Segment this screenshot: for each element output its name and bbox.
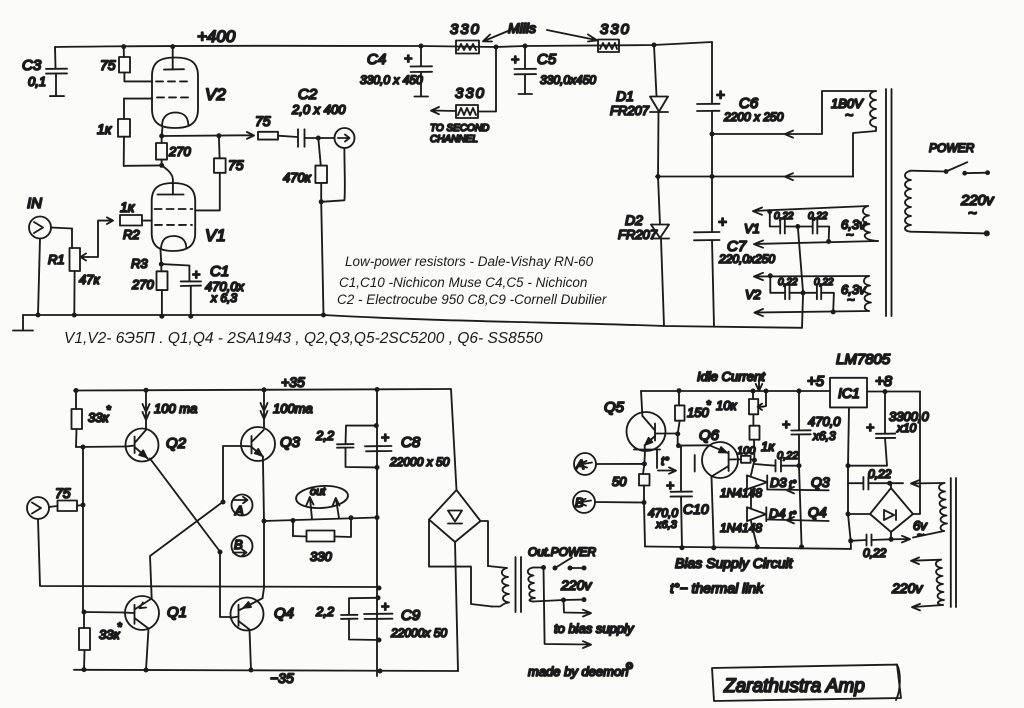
capacitor 0,22 heater V2 b — [803, 285, 834, 312]
svg-text:330,0 х 450: 330,0 х 450 — [360, 73, 423, 87]
tube V1 — [152, 183, 196, 264]
node C10 gnd — [680, 545, 685, 550]
svg-text:+: + — [716, 87, 725, 104]
winding 6,3v (V2) — [864, 276, 871, 311]
svg-text:0,22: 0,22 — [814, 277, 834, 288]
svg-text:FR207: FR207 — [610, 103, 650, 118]
svg-text:75: 75 — [100, 57, 116, 73]
resistor R3 270 — [157, 264, 168, 316]
potentiometer 10k — [749, 391, 766, 414]
svg-text:CHANNEL: CHANNEL — [430, 134, 478, 145]
svg-text:47к: 47к — [79, 272, 100, 287]
node rail-D1 — [652, 43, 657, 48]
wire to bias supply (upper arrow) — [564, 600, 592, 617]
node Q1 -35 — [144, 668, 149, 673]
diode D1 FR207 — [650, 45, 668, 177]
svg-text:C9: C9 — [401, 607, 421, 624]
wire to 6v winding bottom — [891, 536, 910, 543]
svg-text:0,1: 0,1 — [28, 74, 46, 89]
svg-text:C4: C4 — [367, 51, 386, 68]
node C1-gnd — [188, 314, 193, 319]
svg-text:~: ~ — [845, 107, 853, 123]
wire out bus — [264, 518, 377, 522]
wire B to bias gnd — [644, 503, 645, 547]
resistor 150 — [675, 391, 685, 434]
wire bridge+ to +8 — [913, 392, 920, 515]
wire Q2 emitter diagonal to B — [150, 459, 220, 552]
node 3300 — [883, 389, 888, 394]
node 470k-gnd — [321, 313, 326, 318]
svg-text:50: 50 — [612, 474, 627, 489]
wire V2 cathode to coupling — [162, 134, 244, 137]
transformer core (output) — [516, 557, 522, 612]
node V2 cathode — [159, 134, 164, 139]
wire Q1 base — [83, 611, 123, 614]
svg-text:TO SECOND: TO SECOND — [430, 123, 489, 134]
resistor 75 (V2 screen) — [119, 47, 152, 82]
resistor 470k — [315, 138, 327, 202]
switch POWER — [911, 162, 990, 175]
svg-text:D2: D2 — [625, 212, 643, 228]
svg-text:2,2: 2,2 — [315, 604, 335, 619]
node 470 cap — [797, 389, 802, 394]
wire Q1 collector diagonal to A — [150, 503, 222, 599]
svg-text:+400: +400 — [197, 27, 236, 46]
svg-text:Q2: Q2 — [166, 435, 187, 452]
svg-text:330: 330 — [455, 85, 486, 102]
wire Q2 base — [76, 446, 126, 449]
wire main PSU vertical — [376, 390, 378, 677]
wire Q3 base to A — [223, 446, 241, 502]
capacitor 0,22 (bias a) — [754, 460, 799, 472]
svg-text:220v: 220v — [960, 192, 995, 209]
node row2 — [848, 538, 853, 543]
svg-text:~: ~ — [917, 528, 924, 542]
output transformer secondary — [488, 566, 509, 607]
svg-text:+: + — [404, 50, 412, 66]
svg-text:to bias supply: to bias supply — [554, 621, 635, 636]
capacitor C5 — [515, 46, 537, 94]
capacitor C3 — [46, 47, 67, 96]
input terminal IN — [29, 217, 72, 239]
node B — [218, 550, 223, 555]
svg-text:−35: −35 — [270, 670, 294, 686]
svg-text:A: A — [234, 503, 244, 518]
svg-text:+8: +8 — [875, 373, 893, 390]
svg-text:1к: 1к — [120, 199, 136, 215]
svg-text:out: out — [310, 486, 326, 498]
transistor Q3 — [241, 427, 275, 461]
node C8 top — [374, 423, 379, 428]
transistor Q1 — [123, 596, 159, 630]
node heater1 bottom — [826, 239, 831, 244]
svg-text:0,22: 0,22 — [808, 211, 828, 222]
arrow idle current — [756, 381, 762, 391]
capacitor 0,22 heater V1 b — [798, 220, 829, 242]
svg-text:220v: 220v — [560, 577, 592, 593]
svg-text:C1,C10 -Nichicon Muse C4,C5: C1,C10 -Nichicon Muse C4,C5 - Nichicon — [339, 275, 587, 290]
svg-text:Bias Supply Circuit: Bias Supply Circuit — [675, 555, 794, 571]
node A — [221, 500, 226, 505]
node rail-drop — [494, 45, 499, 50]
svg-text:+: + — [718, 214, 727, 231]
node heater2 bottom — [831, 309, 836, 314]
svg-text:*: * — [117, 620, 122, 634]
svg-text:1N4148: 1N4148 — [720, 486, 762, 500]
node C6 bottom — [710, 132, 715, 137]
winding 6,3v (V1) — [863, 206, 878, 241]
node base bus top — [81, 445, 86, 450]
svg-text:330,0х450: 330,0х450 — [540, 73, 596, 87]
svg-text:х 6,3: х 6,3 — [210, 291, 237, 305]
capacitor C1 — [161, 264, 201, 316]
resistor 75 (coupling series) — [258, 132, 298, 140]
node C2-470k — [316, 136, 321, 141]
svg-text:22000 х 50: 22000 х 50 — [389, 455, 450, 469]
node out-330L — [291, 518, 296, 523]
svg-text:22000х 50: 22000х 50 — [390, 626, 447, 640]
node Q3-rail — [262, 387, 267, 392]
tube V2 — [152, 47, 198, 136]
output terminal (top channel) — [335, 128, 355, 148]
bridge rectifier (bias) — [870, 483, 913, 539]
resistor 75 (V1 screen) — [195, 136, 225, 211]
node Q5 base — [675, 431, 680, 436]
node base bus bottom — [82, 610, 87, 615]
svg-text:R1: R1 — [48, 252, 65, 267]
heater V1 top row — [753, 206, 868, 227]
svg-text:+35: +35 — [281, 374, 305, 390]
svg-text:C8: C8 — [401, 434, 421, 451]
svg-text:©: © — [626, 661, 633, 671]
svg-text:75: 75 — [255, 113, 271, 129]
diode D3 1N4148 — [747, 460, 767, 507]
wire 6v winding top — [890, 480, 945, 487]
svg-text:+: + — [381, 429, 389, 445]
svg-text:0,22: 0,22 — [778, 277, 798, 288]
svg-text:Q1: Q1 — [167, 604, 187, 621]
capacitor 0,22 (bias c) — [851, 535, 891, 546]
svg-text:*: * — [106, 403, 111, 417]
node 10k — [751, 389, 756, 394]
node 220v return — [984, 230, 990, 236]
node 470k-return — [319, 199, 324, 204]
node 1k/270/V1-anode — [159, 163, 164, 168]
arrow mills-right — [547, 30, 597, 42]
svg-text:10к: 10к — [716, 398, 737, 413]
diode D2 FR207 — [651, 177, 669, 327]
capacitor 0,22 (bias b) — [848, 477, 890, 490]
transistor Q6 — [702, 442, 738, 548]
capacitor C2 — [298, 129, 334, 146]
svg-text:270: 270 — [168, 144, 191, 159]
node bridge bottom wire — [889, 537, 894, 542]
node 470cap gnd — [799, 544, 804, 549]
svg-text:C10: C10 — [683, 501, 709, 517]
transformer core (main) — [886, 89, 892, 316]
resistor 330 Mills #1 — [456, 41, 479, 54]
svg-text:D1: D1 — [616, 88, 634, 104]
transistor Q2 — [126, 429, 159, 462]
node Q2-rail — [144, 388, 149, 393]
node out-Q3 — [262, 519, 267, 524]
svg-text:75: 75 — [55, 485, 71, 501]
svg-text:t°− thermal link: t°− thermal link — [670, 580, 764, 596]
svg-text:100 ma: 100 ma — [154, 401, 197, 416]
svg-text:V1: V1 — [205, 226, 226, 245]
node A wire — [642, 461, 647, 466]
capacitor 2,2 (lower) — [341, 598, 379, 640]
node C6C7 row — [710, 174, 715, 179]
node C9 bottom — [377, 638, 382, 643]
svg-text:0,22: 0,22 — [777, 450, 798, 462]
resistor 33k* (upper) — [72, 391, 83, 448]
node rail-V2 anode — [170, 44, 175, 49]
node heater1 — [767, 209, 772, 214]
arrow 220v top — [911, 558, 941, 565]
svg-text:Q4: Q4 — [808, 504, 827, 520]
svg-text:х6,3: х6,3 — [812, 429, 836, 443]
capacitor 0,22 heater V1 a — [780, 220, 798, 234]
svg-text:220,0х250: 220,0х250 — [718, 252, 775, 266]
output transformer primary — [528, 568, 535, 602]
wire bridge- to gnd — [848, 513, 870, 515]
svg-text:C1: C1 — [210, 263, 229, 280]
wire +35 rail — [74, 389, 451, 391]
switch Out.POWER — [541, 558, 587, 571]
node bridge left — [846, 512, 851, 517]
svg-text:330: 330 — [600, 21, 631, 38]
svg-text:470к: 470к — [283, 170, 312, 185]
node out-330R — [349, 515, 354, 520]
svg-text:+: + — [866, 419, 874, 435]
arrow mills-left — [483, 31, 508, 42]
svg-text:1к: 1к — [761, 439, 775, 454]
svg-text:2,2: 2,2 — [315, 428, 335, 443]
svg-text:POWER: POWER — [929, 141, 975, 155]
svg-text:FR207: FR207 — [618, 227, 658, 242]
svg-text:B: B — [234, 537, 243, 552]
svg-text:Low-power resistors - Dale-Vi: Low-power resistors - Dale-Vishay RN-60 — [345, 254, 594, 269]
svg-text:2200 х 250: 2200 х 250 — [723, 110, 784, 124]
arrow on row — [785, 173, 793, 180]
transistor Q5 — [627, 391, 680, 451]
svg-text:D3: D3 — [770, 475, 787, 490]
svg-text:Q6: Q6 — [699, 427, 720, 444]
resistor 75 (input) — [58, 501, 84, 512]
svg-text:270: 270 — [131, 277, 154, 292]
svg-text:75: 75 — [228, 157, 244, 173]
node Q6 base-C10 — [676, 443, 681, 448]
wire Q2 collector 100ma — [143, 390, 150, 429]
svg-text:LM7805: LM7805 — [836, 351, 891, 368]
svg-text:0,22: 0,22 — [863, 546, 887, 560]
wire bias +5 rail — [641, 390, 830, 392]
capacitor C6 — [697, 42, 720, 232]
node heater2 — [768, 273, 773, 278]
wire IC1 ground — [645, 407, 851, 549]
svg-text:+: + — [666, 477, 674, 493]
wire Q5 emitter chain — [643, 451, 645, 475]
node B wire — [642, 500, 647, 505]
resistor 50 — [639, 474, 650, 503]
svg-text:V2: V2 — [205, 85, 226, 104]
wire D1D2 junction row — [656, 176, 853, 178]
svg-text:330: 330 — [310, 549, 332, 564]
node 33k-rail — [74, 388, 79, 393]
capacitor 0,22 heater V2 a — [785, 285, 803, 299]
node bridge top wire — [887, 481, 892, 486]
ground rail (top section) — [23, 315, 802, 328]
svg-text:Mills: Mills — [508, 20, 536, 36]
capacitor C4 — [411, 46, 433, 97]
capacitor 3300,0 — [848, 392, 895, 466]
wire 470k to ground — [321, 202, 323, 315]
svg-text:*: * — [706, 398, 711, 412]
heater V2 bottom row — [754, 309, 869, 316]
node C8 bottom — [375, 465, 380, 470]
node rail-C4 — [419, 44, 424, 49]
resistor R2 1k — [120, 215, 152, 226]
terminal B (bias) — [573, 491, 644, 513]
svg-text:Out.POWER: Out.POWER — [528, 545, 596, 559]
wire base bus vertical — [82, 447, 84, 612]
out ellipse — [295, 484, 348, 510]
svg-text:V2: V2 — [745, 287, 762, 302]
node V1 cathode — [159, 262, 164, 267]
svg-text:Zarathustra Amp: Zarathustra Amp — [723, 676, 865, 697]
heater V1 bottom row — [754, 241, 878, 248]
svg-text:~: ~ — [847, 292, 855, 307]
arrow 220v bottom — [912, 604, 943, 611]
wire D3 to Q3 link — [768, 487, 829, 493]
svg-text:1к: 1к — [97, 121, 113, 137]
transformer core (bias) — [951, 478, 956, 607]
resistor 1k (V2 grid) — [118, 99, 162, 166]
terminal A (bias) — [574, 453, 644, 475]
svg-text:+5: +5 — [807, 373, 825, 390]
node out-C8 — [375, 515, 380, 520]
svg-text:+: + — [381, 598, 389, 614]
potentiometer R1 47k — [70, 217, 114, 315]
node heater mid1 — [795, 224, 800, 229]
svg-text:Q3: Q3 — [811, 474, 830, 490]
capacitor C8 — [365, 446, 392, 451]
svg-text:Idle Current: Idle Current — [697, 369, 766, 384]
wire output circle return — [321, 148, 345, 202]
svg-text:t°: t° — [661, 454, 669, 468]
wire +400 top rail — [55, 42, 712, 47]
node V2out-75 — [216, 133, 221, 138]
resistor 330 (out) — [293, 518, 351, 542]
node 2,2 lower top — [376, 595, 381, 600]
wire bias +8 rail — [867, 391, 920, 393]
node 1k-100 — [752, 458, 757, 463]
node 10k wiper — [764, 389, 769, 394]
node R1-gnd — [72, 313, 77, 318]
svg-text:C3: C3 — [22, 57, 42, 74]
wire heater midpoints to ground — [798, 227, 803, 328]
svg-text:+: + — [192, 266, 200, 282]
svg-text:~: ~ — [846, 227, 854, 242]
svg-text:~: ~ — [968, 205, 977, 222]
svg-text:220v: 220v — [891, 580, 923, 596]
out arrows — [307, 497, 314, 519]
node 470cap mid — [797, 463, 802, 468]
node Q6 gnd — [711, 545, 716, 550]
svg-text:330: 330 — [450, 21, 481, 38]
wire IN to gnd — [38, 239, 40, 316]
svg-text:1N4148: 1N4148 — [720, 521, 762, 535]
svg-text:C5: C5 — [537, 51, 557, 68]
svg-text:IN: IN — [27, 195, 42, 212]
ground symbol — [13, 315, 33, 331]
capacitor 470,0 (bias) — [791, 391, 810, 547]
heater V2 top row — [754, 273, 869, 293]
svg-text:х10: х10 — [896, 421, 917, 435]
node +35 psu — [375, 387, 380, 392]
resistor 33k* (lower) — [79, 612, 90, 670]
wire primary top to switch — [533, 567, 544, 569]
bridge rectifier (main) — [429, 389, 481, 671]
svg-text:+: + — [511, 51, 519, 67]
wire to bias supply (lower arrow) — [544, 568, 592, 649]
node rail-C5 — [523, 44, 528, 49]
wire Q1 emitter to -35 — [146, 629, 149, 671]
node D4 gnd — [755, 544, 760, 549]
arrow on wire — [244, 132, 254, 139]
svg-text:0,22: 0,22 — [774, 211, 794, 222]
capacitor 2,2 (upper) — [337, 426, 377, 468]
winding 220v (bias) — [936, 560, 944, 605]
node IN-gnd — [36, 313, 41, 318]
wire Q6 base — [678, 434, 710, 446]
wire Q4 emitter to -35 — [250, 630, 252, 671]
terminal A — [232, 495, 253, 516]
resistor 330 Mills #2 — [598, 40, 619, 53]
svg-text:6,3v: 6,3v — [841, 217, 867, 232]
resistor 100 — [729, 456, 755, 463]
node Q4 -35 — [249, 668, 254, 673]
svg-text:R2: R2 — [123, 227, 140, 242]
node D1-D2 — [656, 174, 661, 179]
svg-text:C2 - Electrocube 950 C8,C9: C2 - Electrocube 950 C8,C9 -Cornell Dubi… — [337, 292, 607, 307]
wire bridge AC right — [481, 521, 489, 566]
capacitor C9 — [364, 614, 393, 619]
svg-text:made by deemon: made by deemon — [528, 664, 628, 679]
winding 180V — [712, 91, 876, 177]
wire -35 rail — [74, 670, 458, 671]
wire B to Q4 base — [220, 552, 231, 617]
wire input return — [38, 519, 379, 587]
node 75 feed — [81, 503, 86, 508]
wire out vertical to Q4 — [263, 521, 265, 598]
svg-text:100ma: 100ma — [273, 401, 313, 416]
resistor 270 (V2 cathode) — [156, 136, 167, 165]
svg-text:х6,3: х6,3 — [655, 519, 678, 531]
wire Q3 emitter to out node — [263, 457, 264, 522]
svg-text:A: A — [575, 457, 585, 472]
input terminal (power amp) — [27, 497, 57, 519]
winding 220v primary — [905, 171, 987, 234]
svg-text:Q5: Q5 — [604, 399, 625, 416]
svg-text:R3: R3 — [131, 256, 148, 271]
svg-text:V1: V1 — [744, 221, 760, 236]
winding 6v — [939, 483, 947, 531]
transistor Q4 — [231, 598, 264, 631]
capacitor C7 — [694, 232, 720, 326]
node R3-gnd — [159, 314, 164, 319]
